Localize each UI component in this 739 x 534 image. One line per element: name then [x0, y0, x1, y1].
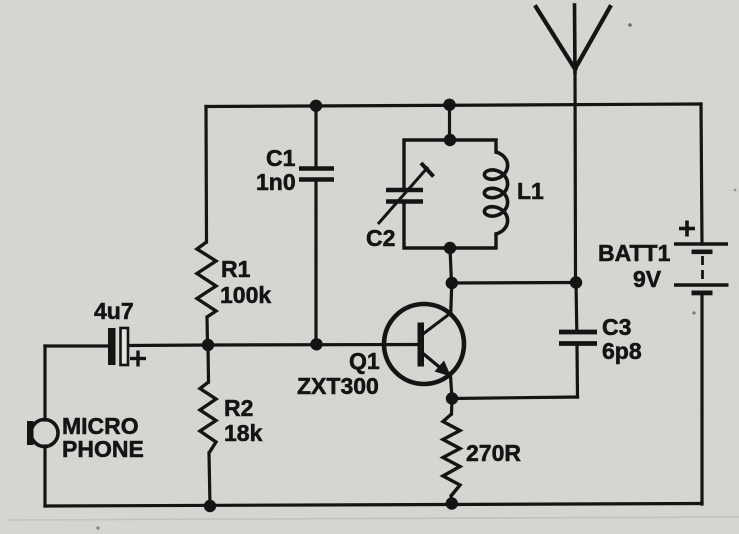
svg-text:C3: C3 — [602, 314, 631, 340]
svg-text:C2: C2 — [366, 225, 395, 251]
wire C4u7 to node A — [129, 343, 208, 347]
capacitor C4u7 electrolytic — [108, 328, 146, 367]
wire mic to C4u7 — [45, 344, 108, 347]
svg-text:R1: R1 — [221, 256, 251, 282]
resistor R3 270R — [443, 414, 460, 496]
svg-text:R2: R2 — [224, 395, 253, 421]
wire top rail — [206, 104, 701, 107]
page edge shadow — [8, 517, 739, 520]
wire left side below mic — [43, 446, 46, 506]
svg-text:9V: 9V — [633, 266, 662, 292]
wire tank bottom to collector node — [450, 248, 452, 283]
junction node tank bottom — [444, 242, 456, 254]
svg-text:Q1: Q1 — [349, 348, 380, 374]
wire C1 bottom lead — [314, 181, 317, 344]
wire R1 to node A — [205, 317, 209, 345]
junction node tank top — [444, 134, 456, 146]
junction node 270R / bottom rail — [446, 497, 458, 509]
wire rail to tank top — [448, 105, 451, 140]
wire battery - to bottom rail — [700, 295, 703, 504]
battery BATT1 — [674, 221, 729, 296]
junction node R2 / bottom rail — [204, 500, 216, 512]
wire 270R top lead — [450, 399, 454, 415]
svg-text:BATT1: BATT1 — [598, 240, 671, 266]
antenna AE1 — [536, 5, 610, 283]
svg-text:6p8: 6p8 — [602, 338, 642, 364]
svg-text:1n0: 1n0 — [256, 169, 296, 195]
wire 270R bottom lead — [449, 496, 453, 504]
svg-text:4u7: 4u7 — [94, 298, 134, 324]
junction node collector right / antenna / C3 — [570, 276, 582, 288]
svg-text:100k: 100k — [220, 282, 271, 308]
wire C1 top lead — [314, 106, 317, 167]
microphone MIC1 — [27, 420, 58, 447]
junction node C1 / base — [310, 338, 322, 350]
capacitor C2 variable — [378, 163, 434, 224]
wire C3 top lead — [574, 283, 578, 331]
junction node A base divider — [202, 339, 214, 351]
polarity plus of BATT1 — [679, 221, 695, 237]
svg-text:C1: C1 — [266, 145, 296, 171]
wire collector lead — [451, 283, 452, 311]
wire emitter lead — [451, 376, 453, 399]
polarity plus of C4u7 — [130, 351, 146, 367]
svg-text:270R: 270R — [466, 440, 521, 466]
junction node emitter — [446, 392, 458, 404]
svg-text:L1: L1 — [517, 178, 544, 204]
paper specks — [628, 23, 632, 27]
inductor L1 — [484, 152, 507, 234]
wire R2 bottom lead — [209, 453, 210, 506]
resistor R1 — [197, 242, 216, 317]
wire bottom rail — [45, 504, 702, 507]
svg-text:ZXT300: ZXT300 — [297, 373, 379, 399]
tank circuit frame — [404, 140, 496, 248]
wire collector node line — [452, 281, 577, 285]
junction node rail / tank — [443, 99, 455, 111]
svg-text:18k: 18k — [224, 420, 263, 446]
wire right side (rail to battery +) — [701, 104, 702, 244]
wire R2 top lead — [206, 345, 210, 382]
wire base line — [208, 343, 418, 347]
capacitor C1 — [299, 169, 334, 180]
svg-text:PHONE: PHONE — [62, 436, 144, 462]
capacitor C3 — [559, 332, 597, 344]
wire R1 branch top — [204, 107, 208, 243]
junction node rail / C1 — [310, 100, 322, 112]
wire left side above mic — [43, 346, 46, 420]
transistor Q1 — [384, 304, 464, 384]
wire C3 bottom lead — [575, 346, 579, 397]
wire emitter node line — [452, 397, 578, 399]
junction node collector left — [446, 277, 458, 289]
resistor R2 — [200, 382, 216, 453]
